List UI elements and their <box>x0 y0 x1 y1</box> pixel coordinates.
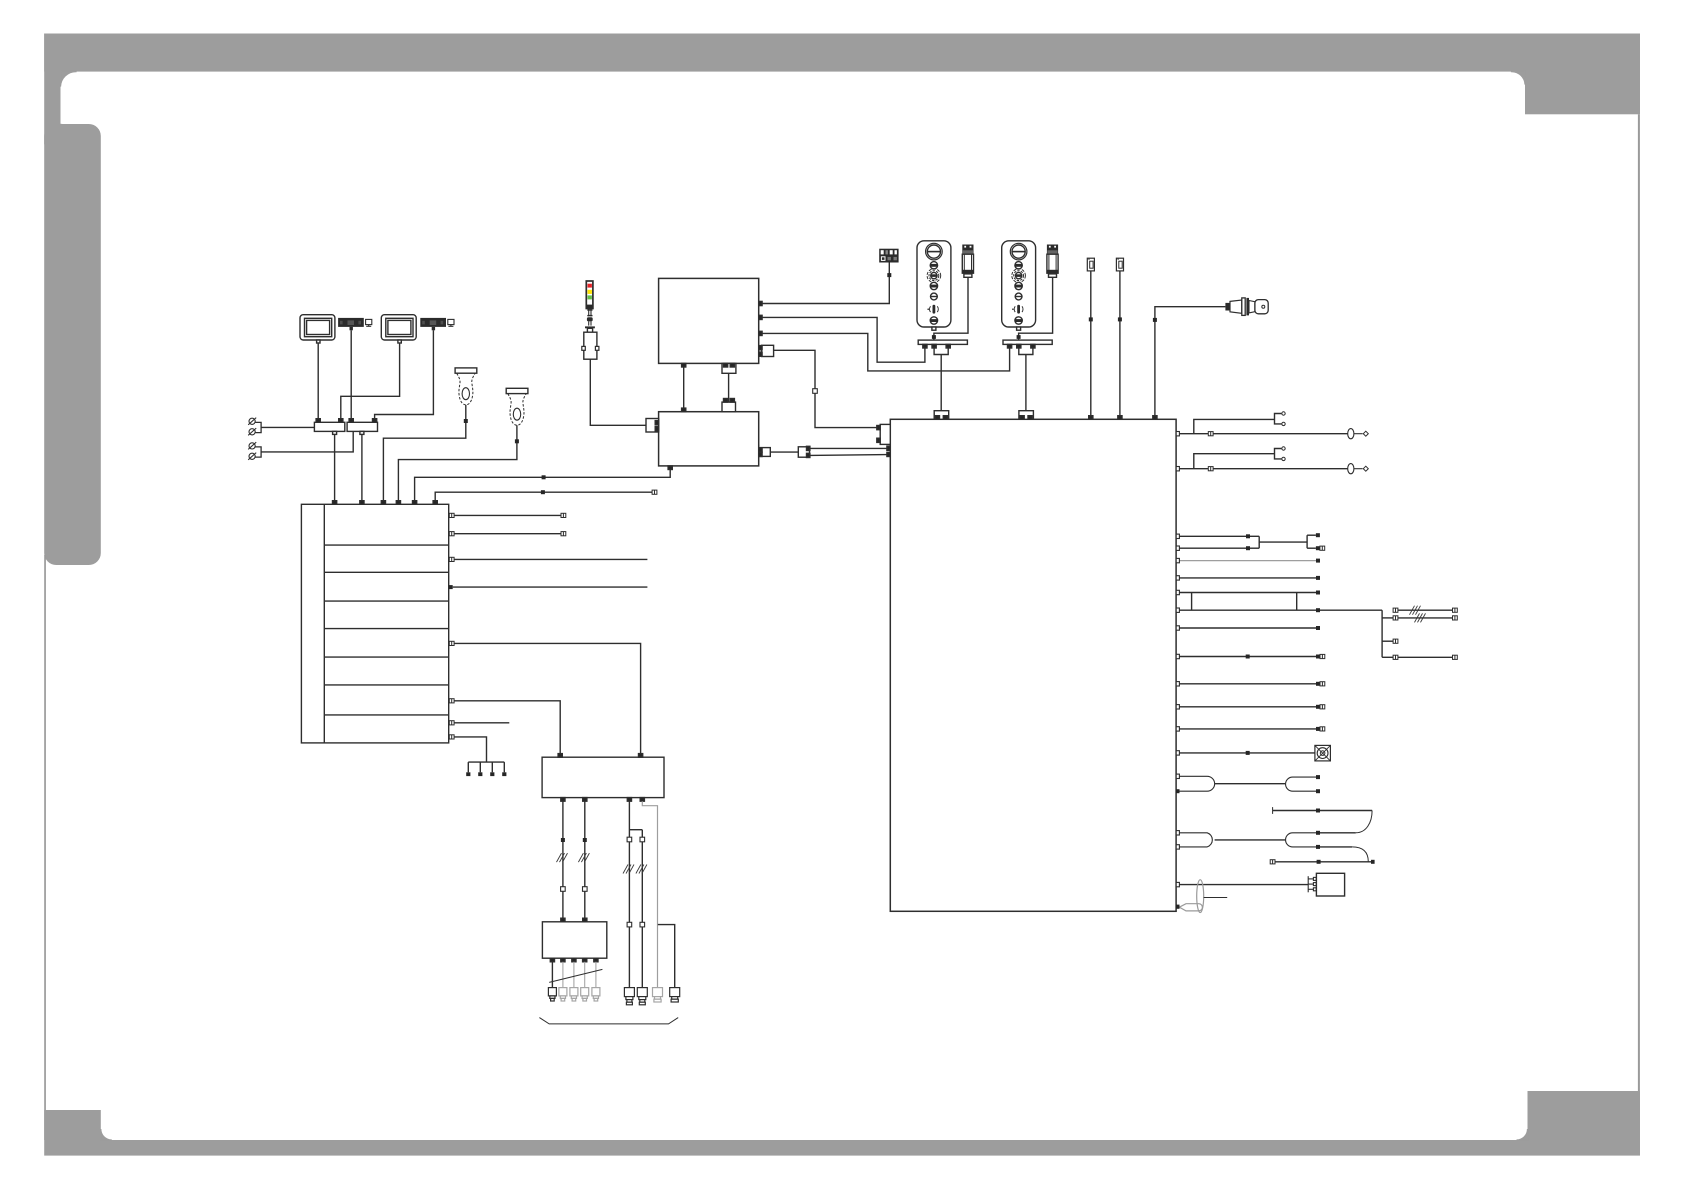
wire dist D dark segment <box>636 830 647 988</box>
wire pair1 to junction box1 <box>261 426 314 428</box>
small plug connector A <box>1087 258 1094 271</box>
wire connector B to right box <box>1118 271 1122 419</box>
left box wire row2 <box>449 532 565 536</box>
left gray strip <box>44 34 60 145</box>
wire small box lead 5 <box>595 962 597 988</box>
pendant remote control 2 <box>1002 241 1036 330</box>
right box top connector block 2 <box>1019 411 1034 420</box>
wire branch to plug4 <box>658 925 675 988</box>
mid box left connector block <box>646 419 659 433</box>
wire block to mid box block <box>728 373 730 402</box>
left box wire row8 to ground comb <box>449 735 486 762</box>
right circuit 1: power outlet line <box>1176 412 1368 439</box>
pendant1 cable funnel <box>934 348 948 355</box>
right circuit 8 <box>1176 626 1320 630</box>
pendant receiver device 1 <box>962 245 973 278</box>
big top box bottom connector block <box>722 363 736 373</box>
right circuit 9 <box>1176 654 1325 658</box>
wire bracket1 to big top box <box>762 317 925 362</box>
right circuit 11 <box>1176 705 1325 709</box>
big top box right tab 2 <box>759 315 762 319</box>
right border line <box>1638 114 1640 1091</box>
under brace <box>539 1018 678 1024</box>
wire small box lead 4 <box>584 962 586 988</box>
pendant2 cable funnel <box>1019 348 1033 355</box>
wire small box lead 2 <box>562 962 564 988</box>
big top box bottom tab <box>682 363 686 367</box>
wire monitor1 to junction box1 <box>317 343 319 419</box>
wire device2 to pendant2 node <box>1017 277 1053 340</box>
right circuit 5 <box>1176 576 1320 580</box>
signal tower light stack <box>586 281 593 309</box>
pump motor connector comb <box>1308 876 1316 892</box>
wire to pump motor <box>1176 882 1308 886</box>
left box wire row5 to distribution box <box>449 641 642 757</box>
wire pendant1 to right box <box>940 355 942 411</box>
sensor plug 1 <box>548 988 556 1001</box>
pump motor box <box>1316 873 1344 896</box>
sensor plug 3 <box>570 988 578 1001</box>
wire dark bar1 to junction box2 <box>350 330 352 419</box>
wire bracket2 to big top box <box>762 333 1010 371</box>
wire small box lead 1 <box>551 962 553 988</box>
wire left box tab6 to end plug <box>435 490 657 501</box>
wires connector pair to right box <box>810 446 890 456</box>
big top box (controller) <box>659 278 759 363</box>
cable loop pair 2 <box>1176 831 1368 862</box>
cable plug D <box>637 988 647 1005</box>
cable loop pair 1 <box>1176 774 1320 793</box>
top gray bar <box>44 34 1640 72</box>
mini display icon 2 <box>448 319 454 326</box>
wire dist C to plug <box>623 801 642 987</box>
mid box top connector block <box>722 399 736 412</box>
relay block <box>879 249 898 263</box>
handheld scanner wand 1 <box>455 368 477 405</box>
pendant remote control 1 <box>917 241 951 330</box>
monitor display 2 <box>381 315 416 343</box>
cooling fan <box>1315 745 1331 761</box>
pendant mount bracket 1 <box>918 340 967 348</box>
big right box (main control unit) <box>890 419 1176 911</box>
sensor plug 2 <box>559 988 567 1001</box>
bottom gray bar <box>44 1140 1640 1156</box>
top-right tab fillet <box>1512 71 1526 85</box>
right circuit 4: gray wire <box>1176 560 1316 562</box>
sensor plug 4 <box>581 988 589 1001</box>
wire device1 to pendant1 node <box>932 277 968 340</box>
left terminal box top tabs <box>333 501 438 505</box>
left gray tab <box>44 124 101 565</box>
bottom-right tab fillet <box>1517 1129 1528 1140</box>
wire key switch to right box <box>1153 307 1226 420</box>
mid box right output connector <box>758 444 760 446</box>
small plug connector B <box>1116 258 1123 271</box>
small box bottom tabs <box>550 958 598 962</box>
wire wand1 to left terminal box <box>383 405 467 501</box>
wire mid box to connector pair <box>770 451 798 453</box>
left box wire row6 to distribution box <box>449 699 562 758</box>
wire small box lead 3 <box>573 962 575 988</box>
distribution box bottom tabs <box>561 798 645 802</box>
floating harness wire 2 <box>1270 860 1374 864</box>
junction box 1 <box>314 419 344 435</box>
floating harness wire 1 <box>1273 807 1373 833</box>
wire junction box1 down <box>334 434 336 501</box>
cable plug 4 <box>670 988 680 1002</box>
wire connector A to right box <box>1089 271 1093 419</box>
open-wire connector pair 2 <box>248 442 261 460</box>
wire relay to big top box <box>762 263 892 304</box>
key switch <box>1225 298 1268 316</box>
monitor display 1 <box>300 315 335 343</box>
wire pendant2 to right box <box>1025 355 1027 411</box>
operator panel dark bar 2 <box>420 318 446 330</box>
left border line <box>44 555 46 1140</box>
big top box right tab 1 <box>759 301 762 305</box>
small bottom box <box>542 922 606 958</box>
left box wire row4 <box>449 585 648 589</box>
wire dark bar2 to junction box2 <box>375 330 434 419</box>
sensor plug 5 <box>592 988 600 1001</box>
wire mid box bottom to left terminal box <box>415 470 671 502</box>
left box wire row7 <box>449 721 509 725</box>
mid box bottom tab <box>668 466 672 470</box>
mini display icon 1 <box>366 319 372 326</box>
open-wire connector pair 1 <box>248 418 261 436</box>
inline connector pair <box>798 446 810 457</box>
cable plug gray <box>653 988 663 1002</box>
right circuit 3: merged pair <box>1176 533 1325 550</box>
mid box right connector block <box>759 448 771 457</box>
left terminal box <box>301 504 448 743</box>
tower light pole and plug <box>585 309 595 333</box>
wire dist B to small box <box>578 801 589 922</box>
wire top block to right box left block <box>774 350 878 427</box>
bottom-right gray tab <box>1528 1091 1641 1156</box>
handheld scanner wand 2 <box>506 388 528 425</box>
buzzer tab <box>1176 905 1179 909</box>
wire wand2 to left terminal box <box>398 425 519 501</box>
top-right gray tab <box>1525 34 1640 115</box>
wire big top box to mid box <box>682 367 686 412</box>
mid box (junction unit) <box>659 412 759 466</box>
wire junction box2 down <box>361 434 363 501</box>
coil tick line <box>1204 897 1228 899</box>
wire tower light to mid box <box>590 359 646 425</box>
right circuit 13: fan <box>1176 751 1315 755</box>
left strip step fillet <box>61 124 71 134</box>
right circuit 7: long bus <box>1176 606 1457 660</box>
wire dist D gray jog <box>642 801 657 989</box>
distribution box <box>542 757 664 797</box>
ground comb <box>466 762 506 776</box>
big top box right tab 3 <box>759 331 762 335</box>
top-left inner corner fillet <box>61 71 77 87</box>
right circuit 12 <box>1176 727 1325 731</box>
operator panel dark bar 1 <box>338 318 364 330</box>
wire monitor2 to junction box1 <box>341 343 400 419</box>
left box wire row3 <box>449 557 647 561</box>
cable coil ellipse <box>1197 880 1204 913</box>
wire pair2 to junction box2 <box>261 431 353 452</box>
pendant receiver device 2 <box>1047 245 1058 278</box>
bottom-left gray tab <box>44 1110 101 1140</box>
left box wire row1 <box>449 513 565 517</box>
big top box right connector block <box>759 345 774 356</box>
cable bundle slash <box>549 969 602 982</box>
wire dist A to small box <box>557 801 568 922</box>
bottom-left tab fillet <box>101 1129 112 1140</box>
pendant mount bracket 2 <box>1003 340 1052 348</box>
right circuit 6 <box>1176 590 1320 610</box>
buzzer bullet <box>1179 904 1202 911</box>
right circuit 2: power outlet line <box>1176 447 1368 474</box>
right circuit 10 <box>1176 682 1325 686</box>
junction box 2 <box>347 419 377 435</box>
right box left connector block <box>877 424 891 444</box>
right box top connector block 1 <box>934 411 949 420</box>
tower light connector body <box>582 332 599 359</box>
cable plug C <box>624 988 634 1005</box>
